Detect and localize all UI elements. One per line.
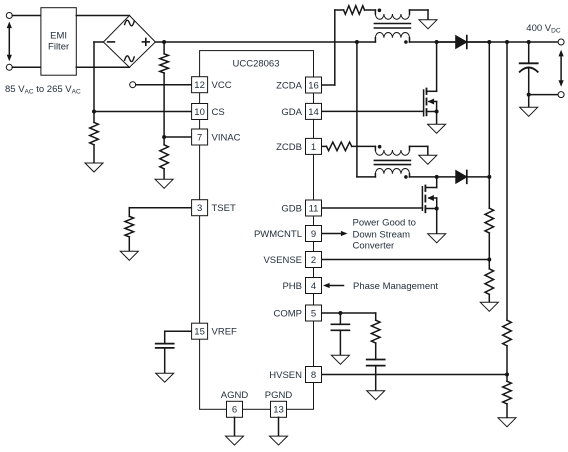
svg-text:VREF: VREF <box>212 327 238 338</box>
svg-text:11: 11 <box>309 203 319 214</box>
svg-text:7: 7 <box>197 132 202 143</box>
svg-text:ZCDA: ZCDA <box>276 80 303 91</box>
svg-text:3: 3 <box>197 203 202 214</box>
svg-text:4: 4 <box>311 281 316 292</box>
svg-text:GDB: GDB <box>281 203 302 214</box>
svg-text:PWMCNTL: PWMCNTL <box>254 229 302 240</box>
svg-text:VINAC: VINAC <box>212 132 241 143</box>
svg-text:ZCDB: ZCDB <box>276 142 302 153</box>
svg-text:1: 1 <box>311 142 316 153</box>
svg-text:Power Good to: Power Good to <box>353 218 416 229</box>
svg-text:GDA: GDA <box>281 107 302 118</box>
svg-text:Phase Management: Phase Management <box>353 281 438 292</box>
svg-text:15: 15 <box>194 327 205 338</box>
svg-text:5: 5 <box>311 308 316 319</box>
svg-text:14: 14 <box>308 107 319 118</box>
svg-text:PHB: PHB <box>282 281 302 292</box>
svg-text:16: 16 <box>308 80 319 91</box>
svg-text:UCC28063: UCC28063 <box>233 59 280 70</box>
svg-text:8: 8 <box>311 370 316 381</box>
svg-text:Down Stream: Down Stream <box>353 230 411 241</box>
svg-text:12: 12 <box>194 80 205 91</box>
svg-text:6: 6 <box>232 405 237 416</box>
svg-text:9: 9 <box>311 229 316 240</box>
svg-text:VCC: VCC <box>212 80 232 91</box>
svg-text:VSENSE: VSENSE <box>263 255 302 266</box>
svg-text:EMI: EMI <box>50 31 67 42</box>
svg-text:13: 13 <box>273 405 284 416</box>
svg-text:Converter: Converter <box>353 241 395 252</box>
svg-text:COMP: COMP <box>274 308 303 319</box>
svg-text:PGND: PGND <box>265 390 293 401</box>
svg-text:Filter: Filter <box>48 42 69 53</box>
svg-text:85 VAC to 265 VAC: 85 VAC to 265 VAC <box>5 84 81 96</box>
svg-text:2: 2 <box>311 255 316 266</box>
svg-text:TSET: TSET <box>212 203 236 214</box>
svg-text:HVSEN: HVSEN <box>269 370 302 381</box>
svg-text:10: 10 <box>194 107 205 118</box>
svg-text:CS: CS <box>212 107 225 118</box>
svg-text:AGND: AGND <box>221 390 249 401</box>
